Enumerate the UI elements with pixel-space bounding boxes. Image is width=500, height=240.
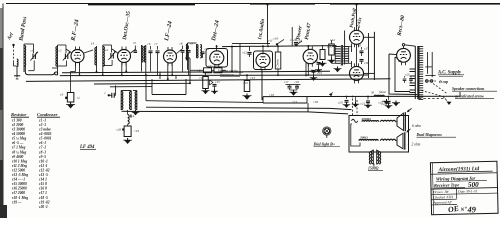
wire speaker bottom xyxy=(373,164,375,167)
node aerial terminal xyxy=(12,44,14,46)
label 300 ohm xyxy=(359,136,368,140)
svg-text:c8 ·1: c8 ·1 xyxy=(39,150,46,154)
svg-text:c18 ·5: c18 ·5 xyxy=(39,196,48,200)
resistor R20 hum xyxy=(371,90,387,96)
capacitor C5 coupling xyxy=(134,46,138,53)
svg-text:c12 ·02: c12 ·02 xyxy=(39,168,50,172)
svg-text:Condenser: Condenser xyxy=(37,112,58,117)
capacitor C17 pp xyxy=(360,47,370,66)
svg-text:c10: c10 xyxy=(205,47,210,51)
wire speaker inner xyxy=(351,124,360,146)
wire pp cathodes xyxy=(351,44,353,68)
svg-text:r17: r17 xyxy=(293,100,298,104)
svg-text:r3 30000: r3 30000 xyxy=(12,128,25,132)
svg-text:OE: OE xyxy=(447,204,459,215)
svg-text:r2 2000: r2 2000 xyxy=(12,123,23,127)
ground R14 xyxy=(328,58,336,64)
svg-text:L4: L4 xyxy=(90,42,95,46)
svg-text:r15 30000: r15 30000 xyxy=(12,182,27,186)
svg-text:1500Ω: 1500Ω xyxy=(368,167,379,171)
wire bus y75 xyxy=(60,74,368,77)
box detector shield xyxy=(206,49,228,68)
wire aerial to primary xyxy=(14,62,17,66)
label tube V6a type xyxy=(296,25,304,41)
transformer T2 secondary winding xyxy=(418,47,423,100)
svg-text:c2 ·1: c2 ·1 xyxy=(39,123,46,127)
svg-text:r18 ·1 Meg: r18 ·1 Meg xyxy=(12,196,28,200)
svg-text:r14: r14 xyxy=(330,38,335,42)
svg-text:r17 2000: r17 2000 xyxy=(12,191,25,195)
wire junction L2-C1 xyxy=(24,66,34,71)
wire C4 down xyxy=(103,60,112,66)
wire V1 cathode down xyxy=(71,63,76,93)
svg-text:r6 ·5 —: r6 ·5 — xyxy=(12,141,24,145)
svg-text:c10: c10 xyxy=(244,81,249,85)
label tube V3 type xyxy=(164,21,174,43)
svg-text:Choke: Choke xyxy=(275,58,279,67)
coil speaker1 xyxy=(381,120,398,122)
label 2000 ohm xyxy=(361,117,372,121)
choke audio xyxy=(275,52,281,69)
ground psu left xyxy=(379,99,391,105)
capacitor C8 xyxy=(181,46,185,72)
svg-text:c16: c16 xyxy=(274,37,279,41)
svg-text:c14 1: c14 1 xyxy=(39,178,47,182)
capacitors C17 C18 audio xyxy=(284,80,301,90)
svg-text:Date 30-1-31: Date 30-1-31 xyxy=(457,189,478,193)
label Aerial terminal xyxy=(6,32,15,42)
wire L2 top to C1 xyxy=(24,44,34,53)
wire left det down xyxy=(185,58,190,70)
label push pull tubes xyxy=(350,8,364,30)
border top line xyxy=(6,4,500,5)
wire V2 grid xyxy=(112,49,118,53)
svg-text:c7: c7 xyxy=(155,42,158,46)
border left line xyxy=(2,4,4,219)
wire L8 to L9 xyxy=(188,42,197,44)
svg-text:c8: c8 xyxy=(180,42,183,46)
svg-text:c5 ·0001: c5 ·0001 xyxy=(39,137,52,141)
coil L5 grid xyxy=(103,45,105,67)
svg-text:r15: r15 xyxy=(327,45,332,49)
capacitor C21 gnd xyxy=(361,97,372,109)
svg-text:⊖ cap: ⊖ cap xyxy=(439,80,449,84)
svg-text:c4 ·0005: c4 ·0005 xyxy=(39,132,52,136)
coil L3 bandpass xyxy=(52,45,58,68)
svg-text:c20: c20 xyxy=(338,101,343,105)
ground R15 xyxy=(319,61,327,67)
tube V7 output upper xyxy=(350,27,364,47)
svg-text:c6: c6 xyxy=(148,42,151,46)
wire pp frame xyxy=(345,4,375,80)
svg-text:N: N xyxy=(459,207,464,213)
wire top feed V4 xyxy=(216,45,218,52)
label neg cap xyxy=(439,80,449,84)
label AC Supply xyxy=(437,71,464,77)
coil L2 tuned secondary xyxy=(24,44,26,72)
wire V5 top xyxy=(262,46,264,54)
label tube V2 type xyxy=(122,11,132,42)
wire bus y83 xyxy=(94,70,190,87)
wire aerial dashed lead-in xyxy=(13,46,15,62)
svg-text:r7 1 Meg: r7 1 Meg xyxy=(12,146,26,150)
junction dots bus xyxy=(329,93,333,96)
svg-text:r11 2 Meg: r11 2 Meg xyxy=(12,164,27,168)
svg-text:c13: c13 xyxy=(215,80,220,84)
svg-text:resistance: resistance xyxy=(220,73,235,77)
capacitor C2 tuning xyxy=(63,52,71,61)
resistor R15 grid xyxy=(320,45,332,60)
ground osc coil xyxy=(132,110,140,115)
svg-text:c10 ·1: c10 ·1 xyxy=(39,159,48,163)
resistor R19 bias xyxy=(124,125,139,137)
svg-text:r4 50000: r4 50000 xyxy=(12,132,25,136)
svg-text:r14 — ·1: r14 — ·1 xyxy=(12,178,25,182)
svg-text:r5 ¼ Meg: r5 ¼ Meg xyxy=(12,137,26,141)
resistor R14 xyxy=(329,40,335,55)
svg-text:c1: c1 xyxy=(31,49,34,53)
svg-text:c11: c11 xyxy=(268,39,273,43)
svg-text:6 ohm: 6 ohm xyxy=(412,124,421,128)
wire V1 grid xyxy=(66,49,71,53)
label tube V4 type xyxy=(211,20,221,42)
svg-text:c4: c4 xyxy=(105,48,108,52)
svg-text:c17 1: c17 1 xyxy=(39,191,47,195)
capacitor C20 gnd xyxy=(338,97,350,108)
capacitor C7 xyxy=(156,46,160,75)
svg-text:r1 300: r1 300 xyxy=(12,118,22,122)
resistor R12 pot xyxy=(203,72,213,89)
svg-text:c19 ·02: c19 ·02 xyxy=(39,200,50,204)
svg-text:r18: r18 xyxy=(314,100,319,104)
capacitor C4 tuning xyxy=(108,51,116,60)
ground C13 xyxy=(211,89,218,94)
junction dots buses xyxy=(79,71,390,98)
capacitor C6 xyxy=(149,46,153,72)
coil L7 IF secondary xyxy=(144,45,146,62)
wire plate supply bus xyxy=(222,44,337,48)
coil L6 IF primary xyxy=(142,45,144,62)
wire choke bottom xyxy=(277,69,279,75)
tube V1 RF amp xyxy=(71,47,84,66)
svg-text:Approved: Approved xyxy=(432,200,446,204)
svg-text:c16 8: c16 8 xyxy=(39,187,47,191)
svg-text:B+: B+ xyxy=(129,114,136,119)
label Band Pass xyxy=(18,16,28,42)
capacitor C26 label xyxy=(117,128,125,132)
svg-text:Speaker connections: Speaker connections xyxy=(452,87,485,91)
svg-text:r13 ·5 Meg: r13 ·5 Meg xyxy=(12,173,28,177)
svg-text:r16 25000: r16 25000 xyxy=(12,187,27,191)
transformer T2 power core xyxy=(415,46,418,99)
coil output primary xyxy=(362,121,379,122)
wire audio box xyxy=(262,69,460,103)
svg-text:c15: c15 xyxy=(313,59,318,63)
wire speaker dash xyxy=(353,99,358,116)
scan left edge strip xyxy=(0,8,7,218)
wire bus right nest1 xyxy=(145,75,147,101)
coil output secondary xyxy=(359,139,378,140)
lamp pilot xyxy=(323,127,331,138)
wire bus right nest3 xyxy=(146,79,352,110)
wire T2 taps dashes xyxy=(425,52,437,81)
svg-text:Dial light B+: Dial light B+ xyxy=(313,142,336,147)
svg-text:80: 80 xyxy=(398,59,402,63)
svg-text:Receiver Type: Receiver Type xyxy=(434,182,459,188)
svg-text:+: + xyxy=(321,58,323,62)
svg-text:49: 49 xyxy=(466,204,476,214)
svg-text:c7 ·1: c7 ·1 xyxy=(39,146,46,150)
coil speaker2 xyxy=(381,139,398,140)
svg-text:r8 ¼ Meg: r8 ¼ Meg xyxy=(12,150,26,154)
label field winding xyxy=(368,167,383,171)
svg-text:30: 30 xyxy=(371,91,375,95)
svg-text:2 ohm: 2 ohm xyxy=(412,143,421,147)
wire osc bottom squiggle xyxy=(128,110,130,124)
capacitor C3 cathode xyxy=(60,93,68,100)
svg-text:c3 mdse: c3 mdse xyxy=(39,128,51,132)
capacitor C22 gnd xyxy=(382,97,393,109)
svg-text:r9 4000: r9 4000 xyxy=(12,155,23,159)
transformer field coil xyxy=(369,150,380,165)
wire V2 plate xyxy=(131,49,137,53)
coil L8 det primary xyxy=(186,43,187,60)
ground C17 C18 xyxy=(290,90,298,96)
wire bus right nest2 xyxy=(122,103,349,114)
ground R1 xyxy=(66,102,75,108)
label c11 xyxy=(267,27,303,46)
svg-text:c5: c5 xyxy=(133,41,136,45)
svg-text:Dual Magnavox: Dual Magnavox xyxy=(416,133,443,137)
label pilot light xyxy=(313,142,341,147)
label tube V9 rectifier xyxy=(396,15,406,38)
capacitor C14 top xyxy=(290,38,298,46)
svg-text:Checked: Checked xyxy=(433,195,445,199)
svg-text:Resistor: Resistor xyxy=(11,112,27,117)
tube V6 output pentode xyxy=(303,46,317,66)
wire feed from top border xyxy=(266,3,357,43)
wire rect top cap xyxy=(402,44,415,49)
label tube V6 type xyxy=(304,22,313,40)
svg-text:r12: r12 xyxy=(200,76,205,80)
label r14 xyxy=(330,38,335,42)
ground psu mid xyxy=(392,101,400,107)
title block xyxy=(430,161,498,215)
wire rect box xyxy=(389,54,417,95)
labels small designators xyxy=(31,41,410,85)
svg-text:c1 ·1: c1 ·1 xyxy=(39,118,46,122)
label B plus xyxy=(129,114,136,119)
wire bus y79 xyxy=(26,79,391,82)
label 2 ohm xyxy=(412,143,421,147)
label 6 ohm xyxy=(412,124,421,128)
capacitor C16 bypass xyxy=(308,69,316,76)
svg-text:r12 5000: r12 5000 xyxy=(12,168,25,172)
wire V6 cathode xyxy=(307,64,309,76)
svg-text:c26: c26 xyxy=(117,128,122,132)
capacitor C12 coupling audio xyxy=(243,46,252,57)
plug pins AC xyxy=(426,80,433,83)
wire PSU dashed bus xyxy=(419,98,446,100)
coil L9 det secondary xyxy=(197,44,202,58)
box audio shield xyxy=(254,51,273,70)
label r17 xyxy=(293,100,298,104)
resistor R1 cathode xyxy=(67,93,80,103)
tube V5 1st audio xyxy=(256,53,270,70)
svg-text:r19: r19 xyxy=(135,129,140,133)
wire L3 top xyxy=(58,45,67,53)
tube V3 IF amp xyxy=(164,47,177,66)
tube V2 detector oscillator xyxy=(118,47,131,66)
transformer T1 interstage xyxy=(332,45,352,66)
svg-text:c11 ·1: c11 ·1 xyxy=(39,164,48,168)
svg-text:c20 ·1: c20 ·1 xyxy=(39,205,48,209)
wire C2 down xyxy=(58,61,67,67)
svg-text:r1: r1 xyxy=(77,96,80,100)
wire R14 down xyxy=(331,55,333,58)
label dual magnavox xyxy=(416,133,457,137)
svg-text:c18: c18 xyxy=(364,61,369,65)
capacitor C13 xyxy=(213,80,221,89)
svg-text:r10 1 Meg: r10 1 Meg xyxy=(12,159,27,163)
svg-text:c12: c12 xyxy=(243,51,248,55)
wire V1 plate to L4 xyxy=(84,50,93,53)
wire C1 bottom to return xyxy=(33,61,35,67)
wire V6 top xyxy=(307,46,309,49)
label tube V1 type xyxy=(70,19,80,42)
ground C16 xyxy=(310,71,323,81)
svg-text:45: 45 xyxy=(358,44,362,48)
capacitor C26 padder xyxy=(105,85,116,97)
svg-text:filater: filater xyxy=(379,90,387,94)
box speaker unit xyxy=(349,116,409,153)
svg-text:Drawn: Drawn xyxy=(432,190,443,194)
capacitor C23 psu xyxy=(403,76,413,83)
label tube V5 type xyxy=(257,18,266,40)
svg-text:c9 ·5: c9 ·5 xyxy=(39,155,46,159)
transformer T2 LV windings xyxy=(410,69,416,93)
svg-text:c6 ·1: c6 ·1 xyxy=(39,141,46,145)
svg-text:c3: c3 xyxy=(60,93,64,97)
coil L4 RF plate xyxy=(95,46,97,66)
svg-text:c15 8: c15 8 xyxy=(39,182,47,186)
speaker 2 horn xyxy=(397,129,411,150)
wire V3 plate xyxy=(177,49,183,54)
table parts list xyxy=(11,112,60,209)
capacitor C1 tuning xyxy=(30,52,38,61)
svg-text:c13 ·5: c13 ·5 xyxy=(39,173,48,177)
wire lead down xyxy=(352,97,360,108)
tube V4 2nd detector xyxy=(210,51,224,68)
ground C15 xyxy=(315,68,322,73)
svg-text:ATH: ATH xyxy=(445,195,453,199)
speaker 1 horn xyxy=(397,109,412,132)
svg-text:c17: c17 xyxy=(284,80,289,84)
svg-text:c17: c17 xyxy=(364,47,369,51)
capacitor C10 det xyxy=(201,52,205,58)
svg-text:c23: c23 xyxy=(405,73,410,77)
tube V9 rectifier xyxy=(397,48,411,65)
note volume control xyxy=(218,69,243,77)
coil L1 antenna primary xyxy=(17,59,18,67)
svg-text:c18: c18 xyxy=(295,80,300,84)
svg-text:r7: r7 xyxy=(209,64,212,68)
svg-text:c2: c2 xyxy=(59,49,62,53)
wire choke top xyxy=(277,46,279,52)
resistor R13 xyxy=(244,75,255,92)
coil L11 oscillator secondary xyxy=(133,91,137,111)
wire bottom return bus xyxy=(25,66,57,75)
ground R12 xyxy=(202,89,210,95)
ground interstage xyxy=(334,67,342,73)
wire AC dashed leads xyxy=(422,84,452,106)
wire bus y71 xyxy=(62,71,330,72)
ground R13 xyxy=(243,94,252,100)
resistor field tap xyxy=(352,119,358,122)
ground antenna primary xyxy=(14,67,20,79)
ground R19 xyxy=(123,138,132,144)
coil L10 oscillator primary xyxy=(121,91,131,111)
label r16 xyxy=(270,93,275,97)
capacitor C9 xyxy=(187,46,191,76)
svg-text:r19 —: r19 — xyxy=(12,200,22,204)
wire bus verticals xyxy=(58,44,369,79)
svg-text:c14: c14 xyxy=(290,38,295,42)
resistor R2 row under detector xyxy=(190,64,226,73)
capacitor C15 electrolytic xyxy=(313,58,323,69)
note speaker connections xyxy=(452,87,497,98)
label r18 xyxy=(314,100,319,104)
label LF 494 xyxy=(79,145,96,150)
svg-text:c9: c9 xyxy=(190,42,193,46)
tube V8 output lower xyxy=(350,63,364,83)
wire L5 top xyxy=(103,45,112,53)
